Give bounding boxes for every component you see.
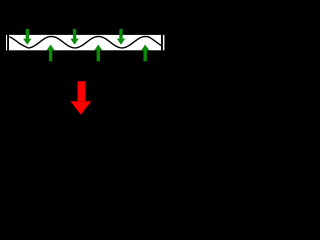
green up arrow 2	[94, 45, 102, 62]
green down arrow 3	[117, 29, 125, 45]
left end cap	[7, 35, 9, 50]
green up arrow 1	[46, 45, 54, 62]
bar (white rod)	[6, 35, 164, 50]
green up arrow 3	[141, 45, 149, 62]
right end cap	[161, 35, 163, 50]
red force arrow	[71, 81, 92, 115]
green down arrow 2	[70, 29, 78, 45]
green down arrow 1	[23, 29, 31, 45]
standing wave	[9, 36, 161, 48]
